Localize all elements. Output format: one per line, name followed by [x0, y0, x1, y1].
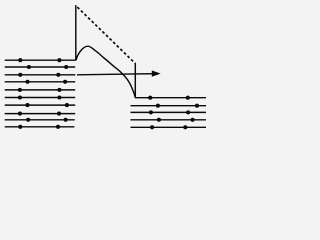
- electrons on right line 2: [156, 104, 160, 108]
- left metal energy level line 5: [5, 89, 76, 91]
- right anode energy level line 4: [131, 119, 207, 121]
- electrons on left line 4: [25, 80, 29, 84]
- electrons on right line 1: [148, 96, 152, 100]
- right anode energy level line 2: [131, 105, 207, 107]
- electrons on left line 9: [26, 118, 30, 122]
- left metal energy level line 2: [5, 66, 76, 68]
- electrons on left line 2: [27, 65, 31, 69]
- electrons on left line 3: [18, 73, 22, 77]
- tunneling electron arrowhead: [152, 70, 161, 76]
- electrons on right line 3: [149, 110, 153, 114]
- left metal energy level line 9: [5, 119, 75, 121]
- dashed barrier line without image force: [76, 6, 135, 63]
- left metal energy level line 1: [5, 59, 76, 61]
- electrons on left line 5: [18, 88, 22, 92]
- right anode energy level line 3: [131, 111, 207, 113]
- left metal energy level line 7: [5, 104, 76, 106]
- left metal energy level line 4: [5, 81, 76, 83]
- electrons on left line 6: [18, 95, 22, 99]
- right anode energy level line 5: [131, 126, 207, 128]
- electrons on left line 10: [18, 125, 22, 129]
- electrons on left line 8: [18, 112, 22, 116]
- electrons on right line 4: [157, 118, 161, 122]
- left metal energy level line 6: [5, 97, 76, 99]
- metal surface barrier vertical line: [75, 5, 77, 60]
- left metal energy level line 10: [5, 126, 75, 128]
- solid barrier curve with image force: [76, 46, 135, 97]
- right anode energy level line 1: [135, 97, 206, 99]
- left metal energy level line 3: [5, 74, 76, 76]
- electrons on left line 7: [25, 103, 29, 107]
- electrons on right line 5: [150, 125, 154, 129]
- electrons on left line 1: [18, 58, 22, 62]
- right electrode surface vertical line: [134, 63, 136, 97]
- tunneling electron arrow shaft: [77, 74, 159, 75]
- left metal energy level line 8: [5, 113, 76, 115]
